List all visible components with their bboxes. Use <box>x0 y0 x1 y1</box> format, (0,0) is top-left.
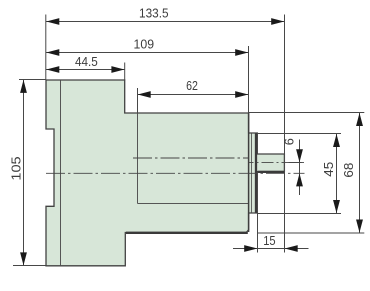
svg-text:109: 109 <box>134 37 155 52</box>
centerline shaft axis <box>249 161 305 163</box>
dimension 109 <box>46 37 248 56</box>
extension line motor face <box>248 46 250 113</box>
bearing boss inner line <box>251 134 253 213</box>
extension line boss bottom right <box>258 213 341 215</box>
centerline gearbox axis <box>133 157 249 159</box>
boss right shadow <box>255 134 257 213</box>
extension line boss face <box>257 213 259 253</box>
dimension 68 <box>341 113 363 234</box>
centerline flange axis <box>46 172 305 174</box>
svg-text:105: 105 <box>8 156 23 180</box>
svg-text:68: 68 <box>341 163 356 178</box>
dimension 105 <box>8 80 27 266</box>
stator seam vertical <box>137 114 139 204</box>
extension line shaft end <box>284 15 286 253</box>
gearmotor body outline <box>46 80 284 266</box>
dimension 133.5 <box>46 6 284 25</box>
extension line stator seam <box>137 88 139 114</box>
extension line boss top right <box>258 133 341 135</box>
dimension 62 <box>138 78 249 98</box>
dimension 15 <box>233 233 309 252</box>
extension line shaft axis right <box>289 162 302 164</box>
extension line body top <box>19 79 46 81</box>
shaft bottom shadow <box>258 171 285 173</box>
dimension 45 <box>321 134 340 214</box>
extension line step face <box>124 63 126 81</box>
extension line left face <box>45 15 47 81</box>
svg-text:62: 62 <box>186 78 198 93</box>
extension line body bottom <box>13 265 46 267</box>
motor bottom shadow <box>126 232 248 234</box>
extension line motor top right <box>249 112 364 114</box>
dimension 44.5 <box>46 54 125 73</box>
extension line motor bottom right <box>258 232 364 234</box>
svg-text:45: 45 <box>321 162 336 177</box>
svg-text:133.5: 133.5 <box>139 6 169 21</box>
svg-text:15: 15 <box>263 233 275 248</box>
dimension 6 offset <box>282 138 303 195</box>
svg-text:44.5: 44.5 <box>75 54 98 69</box>
stator seam horizontal <box>138 203 249 205</box>
motor face edge <box>248 113 250 232</box>
flange inner edge <box>60 81 62 266</box>
svg-text:6: 6 <box>282 138 297 145</box>
